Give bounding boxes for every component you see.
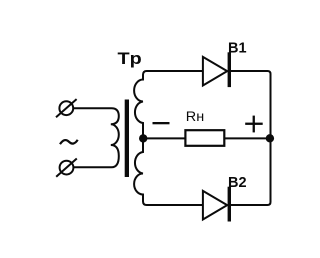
svg-text:Rн: Rн	[186, 108, 204, 124]
svg-text:Tp: Tp	[118, 49, 142, 68]
svg-text:B2: B2	[228, 175, 247, 191]
svg-text:B1: B1	[228, 40, 247, 56]
